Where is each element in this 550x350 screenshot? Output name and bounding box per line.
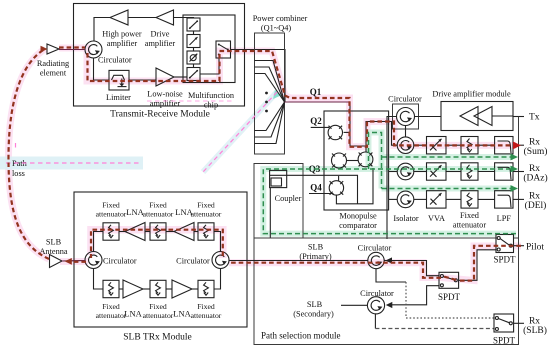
green dashed comparator riser <box>369 133 382 189</box>
LNA (TRx bottom 1) <box>123 280 143 319</box>
svg-text:Circulator: Circulator <box>176 257 210 266</box>
svg-text:VVA: VVA <box>428 214 445 223</box>
LNA (TRx top 1) <box>125 207 145 241</box>
svg-text:Monopulse: Monopulse <box>339 212 377 221</box>
SLB (Secondary) label + stub <box>293 300 367 319</box>
chip switch 1 <box>187 18 200 31</box>
wire SLB antenna to circulator <box>62 260 85 263</box>
wire LNA to chip <box>174 76 187 78</box>
svg-text:Fixed: Fixed <box>102 302 120 311</box>
arrow into primary circulator <box>386 257 393 263</box>
green dashed branch to DEl <box>382 188 512 190</box>
receiver row DAz <box>397 163 524 180</box>
svg-text:attenuator: attenuator <box>191 210 222 219</box>
Path loss label <box>12 159 28 178</box>
circulator (top right) <box>397 108 415 126</box>
cyan band at Path loss label <box>0 157 143 170</box>
SLB TRx bottom row wires <box>94 269 104 290</box>
VVA (DAz) <box>427 163 447 180</box>
magenta diagonal near combiner <box>203 92 277 172</box>
Tx stub <box>513 113 540 123</box>
svg-text:Circulator: Circulator <box>358 244 392 253</box>
wire middle SPDT to secondary circulator <box>388 286 439 305</box>
wire circulator to limiter <box>94 58 110 80</box>
svg-text:attenuator: attenuator <box>143 311 174 320</box>
svg-text:amplifier: amplifier <box>150 99 181 108</box>
GLOWS <box>0 48 521 281</box>
svg-text:chip: chip <box>204 101 218 110</box>
red dashed TR module receive chain <box>59 46 85 48</box>
green dashed calibration path from pilot SPDT <box>263 169 516 234</box>
svg-text:Circulator: Circulator <box>388 95 422 104</box>
wire primary circulator to middle SPDT <box>384 261 439 276</box>
red dashed path: pilot to SLB TRx <box>459 246 521 281</box>
svg-text:Rx: Rx <box>529 317 540 327</box>
SLB TRx Module box <box>74 192 247 343</box>
svg-text:Path selection module: Path selection module <box>261 331 340 341</box>
svg-text:SLB TRx Module: SLB TRx Module <box>123 333 191 343</box>
green arrow Sum <box>511 154 519 161</box>
red dashed path loss curve <box>8 50 49 260</box>
svg-text:Limiter: Limiter <box>106 93 131 102</box>
svg-text:loss: loss <box>12 169 25 178</box>
svg-text:Isolator: Isolator <box>393 214 419 223</box>
magenta dashes near low-noise label <box>147 100 232 102</box>
hybrid H2 <box>332 153 347 168</box>
svg-text:element: element <box>40 69 67 78</box>
circulator (SLB secondary) <box>360 289 394 314</box>
comparator internal wires <box>287 102 398 204</box>
LNA (TRx top 2) <box>174 207 194 241</box>
fixed attenuator (Sum) <box>461 137 478 154</box>
fixed attenuator (TRx bottom 2) <box>143 280 174 320</box>
svg-text:LNA: LNA <box>124 309 142 319</box>
fixed attenuator (TRx bottom 3) <box>191 280 222 320</box>
circulator (TR module) <box>85 41 132 65</box>
gray dashed wire secondary to bottom SPDT <box>375 328 494 330</box>
Q4 line <box>309 183 334 194</box>
hybrid H4 <box>329 181 343 195</box>
red dashed to SLB antenna <box>72 261 87 263</box>
limiter <box>106 70 131 102</box>
hybrid H1 <box>328 125 342 139</box>
SLB antenna <box>39 238 67 268</box>
svg-text:Fixed: Fixed <box>197 201 215 210</box>
SPDT (middle) <box>438 272 461 302</box>
magenta dashed line at Path loss <box>6 162 141 164</box>
red arrow into radiating element <box>41 46 48 53</box>
chip SPDT switch box <box>216 41 231 58</box>
TR module output wire to combiner <box>231 50 286 103</box>
svg-text:comparator: comparator <box>339 221 377 230</box>
svg-text:(Primary): (Primary) <box>299 252 331 261</box>
svg-text:Circulator: Circulator <box>103 257 137 266</box>
svg-text:Circulator: Circulator <box>360 289 394 298</box>
svg-text:SLB: SLB <box>307 300 323 309</box>
monopulse comparator box <box>324 111 389 230</box>
svg-text:Circulator: Circulator <box>98 56 132 65</box>
wire circulator down to isolator <box>405 126 407 138</box>
svg-text:Transmit-Receive Module: Transmit-Receive Module <box>110 110 210 120</box>
isolator (Sum) <box>397 137 414 154</box>
svg-text:(SLB): (SLB) <box>523 325 547 336</box>
svg-text:attenuator: attenuator <box>191 311 222 320</box>
SPDT (bottom right) <box>493 314 516 346</box>
svg-text:attenuator: attenuator <box>96 210 127 219</box>
comparator output stubs rows 2,3 <box>389 172 398 200</box>
pink glow along main pilot path (path selection) <box>229 246 521 281</box>
svg-text:attenuator: attenuator <box>96 311 127 320</box>
right vertical line <box>518 117 520 240</box>
svg-text:(Secondary): (Secondary) <box>293 310 334 319</box>
fixed attenuator (DEl) <box>461 191 478 208</box>
Rx SLB stub <box>514 317 547 337</box>
SLB (Primary) label <box>299 243 331 262</box>
svg-text:(DEl): (DEl) <box>525 200 547 211</box>
svg-text:(Sum): (Sum) <box>524 146 548 157</box>
svg-text:Rx: Rx <box>529 138 540 148</box>
radiating element <box>37 44 69 78</box>
Pilot stub <box>514 243 545 253</box>
pink glow antenna exit <box>60 258 88 265</box>
wire radiating element to circulator <box>59 49 85 51</box>
chip switch 2 <box>187 68 200 81</box>
pink glow TR module receive row <box>59 48 516 147</box>
svg-text:Rx: Rx <box>529 192 540 202</box>
green arrow DAz <box>511 166 519 173</box>
fixed attenuator (TRx top 2) <box>143 201 174 241</box>
LPF (Sum) <box>495 137 513 154</box>
pink glow path loss curve <box>8 49 49 259</box>
SPDT (top right, pilot) <box>493 235 516 265</box>
receiver row DEl <box>397 191 524 208</box>
circulator module box (top right) <box>388 95 422 130</box>
wire HPA output to circulator <box>94 18 110 42</box>
drive amplifier <box>145 10 176 48</box>
svg-text:Q4: Q4 <box>310 183 322 193</box>
wire drive amp to HPA <box>128 17 156 19</box>
arrow into secondary circulator <box>386 302 393 308</box>
VVA (DEl) <box>427 191 447 208</box>
gray dotted wire primary branch to bottom SPDT <box>406 282 494 318</box>
svg-text:Drive amplifier module: Drive amplifier module <box>432 90 511 99</box>
green dashed branch to Sum <box>382 156 512 158</box>
wire secondary circulator down <box>374 314 377 329</box>
LNA (TRx bottom 2) <box>172 280 192 319</box>
teal glow along green calibration path <box>263 169 516 234</box>
svg-text:amplifier: amplifier <box>145 39 176 48</box>
svg-text:Coupler: Coupler <box>275 194 302 203</box>
svg-text:(Q1~Q4): (Q1~Q4) <box>261 24 292 33</box>
hybrid H3 <box>358 152 373 167</box>
wire limiter to LNA <box>129 79 156 81</box>
svg-text:LPF: LPF <box>497 214 512 223</box>
combiner input lines lower <box>255 102 285 144</box>
circulator (SLB TRx left) <box>85 252 137 269</box>
wire SLB TRx to primary circulator <box>229 260 368 262</box>
coupler output wire down <box>269 188 271 238</box>
wire circulator left down to path selection <box>387 117 397 240</box>
svg-text:attenuator: attenuator <box>453 221 486 230</box>
red dashed SLB TRx top row <box>91 230 223 258</box>
Q2 line <box>310 116 329 127</box>
Q1 line <box>285 87 351 102</box>
isolator (DEl) <box>397 191 414 208</box>
chip phase shifter <box>187 51 200 64</box>
red dashed through middle SPDT <box>443 276 456 280</box>
svg-text:Drive: Drive <box>151 30 170 39</box>
svg-text:SLB: SLB <box>308 243 324 252</box>
svg-text:(DAz): (DAz) <box>523 173 547 184</box>
pink glow along SLB TRx top row <box>91 230 223 258</box>
svg-text:Radiating: Radiating <box>37 59 69 68</box>
svg-text:Fixed: Fixed <box>102 201 120 210</box>
LPF (DAz) <box>495 163 513 180</box>
svg-text:Antenna: Antenna <box>39 247 67 256</box>
svg-text:SLB: SLB <box>46 238 62 247</box>
svg-text:Fixed: Fixed <box>197 302 215 311</box>
receiver row Sum <box>397 137 524 154</box>
chip attenuator <box>187 35 200 48</box>
low-noise amplifier <box>147 68 183 108</box>
SLB TRx top row wires <box>94 232 104 252</box>
svg-text:Pilot: Pilot <box>526 243 544 253</box>
svg-text:Power combiner: Power combiner <box>253 14 308 23</box>
svg-text:Fixed: Fixed <box>149 302 167 311</box>
wire pilot SPDT lower terminal <box>459 250 496 280</box>
coupler symbol <box>270 170 287 187</box>
high power amplifier <box>102 10 142 48</box>
multifunction chip box <box>183 15 235 110</box>
svg-text:Low-noise: Low-noise <box>147 90 183 99</box>
receiver chain labels <box>393 211 511 230</box>
chip internal wires <box>194 31 220 74</box>
magenta vertical tick <box>15 143 17 151</box>
red dashed SPDT to primary circulator to SLB TRx <box>229 263 441 278</box>
VVA (Sum) <box>427 137 447 154</box>
teal arrow patch near combiner input <box>273 90 282 99</box>
svg-text:SPDT: SPDT <box>493 255 516 265</box>
svg-text:attenuator: attenuator <box>143 210 174 219</box>
svg-text:SPDT: SPDT <box>438 292 461 302</box>
svg-text:Q1: Q1 <box>310 87 322 97</box>
svg-text:Tx: Tx <box>529 113 540 123</box>
drive amplifier module <box>432 90 513 131</box>
LPF (DEl) <box>495 191 513 208</box>
circulator (SLB primary) <box>358 244 392 269</box>
svg-text:Multifunction: Multifunction <box>188 91 235 100</box>
red arrow into SLB antenna <box>65 258 72 265</box>
circulator (SLB TRx right) <box>176 252 229 269</box>
green arrow DEl <box>511 185 519 192</box>
svg-text:Fixed: Fixed <box>460 211 480 220</box>
fixed attenuator (TRx bottom 1) <box>96 280 127 320</box>
svg-text:SPDT: SPDT <box>493 336 516 346</box>
fixed attenuator (TRx top 3) <box>191 201 222 241</box>
combiner input lines upper <box>255 61 285 103</box>
coupler module box <box>254 164 303 239</box>
wire circulator to drive amp module <box>415 116 442 118</box>
Rx port labels <box>523 138 547 212</box>
svg-text:Rx: Rx <box>529 164 540 174</box>
red arrow into Rx Sum <box>513 142 521 150</box>
Path selection module box <box>254 238 519 345</box>
wire primary circulator down <box>376 269 406 282</box>
svg-text:High power: High power <box>102 30 142 39</box>
wire chip to drive amp <box>174 17 194 20</box>
fixed attenuator (TRx top 1) <box>96 201 127 241</box>
svg-text:Q2: Q2 <box>310 116 322 126</box>
isolator (DAz) <box>397 163 414 180</box>
svg-text:Fixed: Fixed <box>149 201 167 210</box>
cyan patches along magenta diagonal <box>203 92 277 172</box>
svg-text:LNA: LNA <box>173 309 191 319</box>
Transmit-Receive Module box <box>74 4 245 120</box>
power combiner box <box>253 14 308 154</box>
svg-text:amplifier: amplifier <box>107 39 138 48</box>
combiner dots <box>265 92 268 113</box>
fixed attenuator (DAz) <box>461 163 478 180</box>
